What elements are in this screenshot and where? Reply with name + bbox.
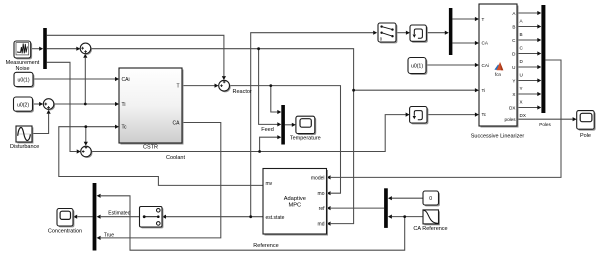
svg-text:Pole: Pole	[580, 133, 591, 139]
svg-text:u0(1): u0(1)	[411, 64, 423, 70]
svg-text:mo: mo	[318, 191, 325, 197]
svg-text:T: T	[176, 84, 179, 90]
svg-text:Ti: Ti	[122, 102, 126, 108]
svg-text:C: C	[520, 45, 524, 50]
svg-text:U: U	[512, 65, 515, 70]
svg-text:Reactor: Reactor	[233, 89, 252, 95]
svg-text:Coolant: Coolant	[166, 155, 185, 161]
svg-text:Y: Y	[512, 78, 515, 83]
svg-text:Adaptive: Adaptive	[284, 196, 306, 202]
svg-text:poles: poles	[505, 117, 517, 122]
svg-text:Tc: Tc	[122, 125, 128, 131]
svg-text:Disturbance: Disturbance	[10, 144, 39, 150]
svg-text:U: U	[520, 72, 523, 77]
svg-text:A: A	[520, 18, 524, 23]
svg-text:Ti: Ti	[482, 88, 486, 93]
svg-text:MPC: MPC	[288, 202, 301, 208]
svg-text:D: D	[520, 59, 524, 64]
svg-text:Estimated: Estimated	[108, 210, 130, 216]
svg-text:CA: CA	[173, 121, 181, 127]
svg-text:X: X	[520, 99, 523, 104]
svg-text:Noise: Noise	[15, 66, 29, 72]
svg-text:u0(2): u0(2)	[17, 102, 29, 108]
svg-text:CSTR: CSTR	[143, 144, 158, 150]
svg-text:model: model	[311, 175, 325, 181]
svg-text:Tc: Tc	[482, 112, 487, 117]
svg-text:DX: DX	[509, 105, 515, 110]
svg-text:est.state: est.state	[266, 215, 285, 221]
svg-text:CA: CA	[482, 41, 489, 46]
svg-text:ref: ref	[319, 206, 325, 212]
svg-text:md: md	[318, 222, 325, 228]
svg-text:0: 0	[429, 196, 432, 202]
svg-text:B: B	[512, 24, 515, 29]
svg-text:B: B	[520, 32, 523, 37]
svg-text:CAi: CAi	[482, 63, 489, 68]
svg-text:Poles: Poles	[539, 122, 551, 127]
svg-text:T: T	[482, 17, 485, 22]
svg-text:Feed: Feed	[261, 127, 274, 133]
svg-text:Measurement: Measurement	[6, 60, 40, 66]
svg-text:CA Reference: CA Reference	[413, 226, 447, 232]
svg-text:fcn: fcn	[495, 72, 502, 77]
svg-text:CAi: CAi	[122, 77, 130, 83]
svg-text:mv: mv	[266, 181, 273, 187]
svg-text:Successive Linearizer: Successive Linearizer	[471, 134, 525, 140]
svg-text:DX: DX	[520, 113, 526, 118]
svg-text:Reference: Reference	[253, 243, 278, 249]
svg-text:Temperature: Temperature	[290, 135, 321, 141]
svg-text:Y: Y	[520, 86, 523, 91]
svg-text:X: X	[512, 92, 515, 97]
svg-text:True: True	[104, 233, 114, 239]
svg-text:Concentration: Concentration	[48, 229, 82, 235]
svg-text:u0(1): u0(1)	[17, 78, 29, 84]
